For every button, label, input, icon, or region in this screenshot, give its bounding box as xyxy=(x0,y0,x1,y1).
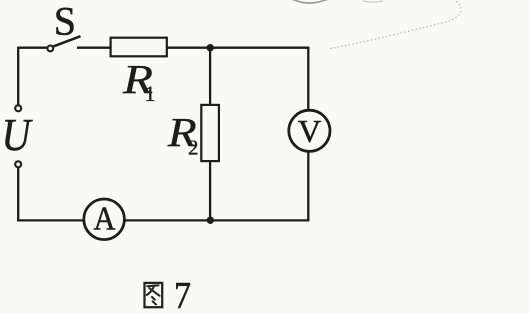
svg-text:U: U xyxy=(2,109,33,160)
svg-text:7: 7 xyxy=(174,275,191,313)
svg-text:2: 2 xyxy=(188,136,199,160)
svg-text:V: V xyxy=(298,113,321,149)
svg-text:A: A xyxy=(94,200,116,237)
svg-text:S: S xyxy=(54,0,76,44)
svg-text:1: 1 xyxy=(145,81,156,106)
